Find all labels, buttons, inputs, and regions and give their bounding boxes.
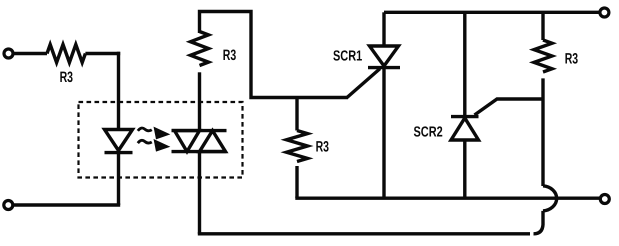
optocoupler dashed box U1	[79, 102, 243, 178]
resistor R3 (series input)	[47, 45, 85, 63]
wire	[198, 152, 201, 234]
wire	[198, 72, 201, 130]
svg-text:SCR2: SCR2	[414, 124, 443, 140]
wire hop (crossover, no connection)	[543, 186, 557, 211]
wire	[13, 203, 120, 206]
svg-text:R3: R3	[316, 138, 329, 155]
terminal output top-right	[600, 8, 609, 17]
terminal input bottom-left	[4, 201, 13, 210]
wire	[534, 211, 544, 234]
svg-text:R3: R3	[223, 47, 236, 64]
resistor R3 (gate pull-down)	[287, 131, 308, 162]
wire	[13, 52, 47, 55]
wire	[295, 98, 298, 131]
photon arrow 2	[138, 140, 168, 150]
photon arrow 1	[138, 128, 168, 138]
terminal output bottom-right	[600, 195, 609, 204]
LED D1 (optocoupler emitter)	[105, 130, 133, 153]
wire (bottom return rail)	[198, 232, 530, 235]
photo-triac (optocoupler detector)	[172, 131, 227, 152]
wire	[463, 12, 466, 116]
thyristor SCR1	[347, 12, 400, 198]
thyristor SCR2	[451, 99, 543, 198]
resistor R3 (triac pull-up)	[191, 32, 209, 66]
wire	[117, 153, 120, 205]
resistor R3 (SCR2 gate)	[534, 40, 552, 72]
wire (top rail)	[384, 11, 600, 14]
wire	[541, 12, 544, 40]
svg-text:SCR1: SCR1	[333, 48, 362, 64]
svg-text:R3: R3	[60, 69, 73, 86]
svg-text:R3: R3	[565, 50, 578, 67]
wire	[295, 166, 298, 198]
wire	[200, 12, 349, 98]
wire	[117, 52, 120, 130]
wire	[541, 78, 544, 186]
terminal input top-left	[4, 49, 13, 58]
wire (middle rail to output)	[295, 196, 600, 199]
wire	[85, 52, 120, 55]
